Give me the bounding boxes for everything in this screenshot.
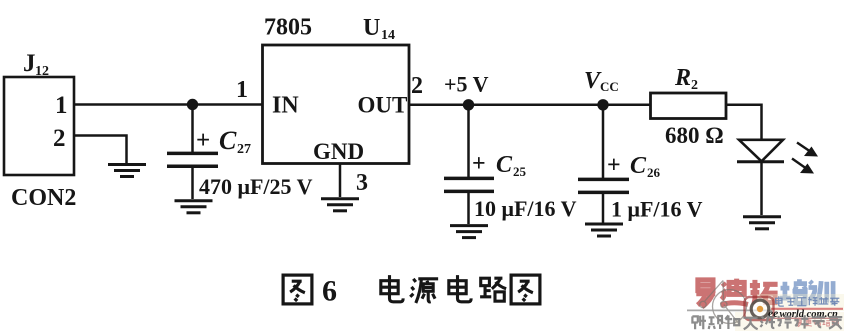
svg-text:CC: CC [600,79,619,94]
svg-text:27: 27 [237,142,251,157]
svg-text:+5 V: +5 V [444,72,489,97]
wire LED to ground [760,162,763,215]
wire C26 to ground [602,193,605,223]
wire junction to C26 [602,105,605,178]
svg-text:7805: 7805 [264,15,312,41]
watermark char xun (blue) [809,281,834,305]
C25 value 10uF/16V [474,196,577,221]
ground at C25 [450,226,488,238]
watermark brand yiditu (red) + peixun (blue) [696,279,833,307]
watermark red divider bar [771,308,843,310]
connector J12 body [4,77,74,175]
caption char dian (electric) 2 [449,275,471,302]
regulator U14 7805 body [263,45,410,164]
C27 value 470uF/25V [199,174,313,199]
wire junction to C25 [467,105,470,177]
LED emission arrow 2 [792,159,814,174]
C25 plus sign [472,151,486,177]
caption char tu (figure) [283,275,312,304]
wire C27 to ground [191,167,194,199]
label C25 [496,152,527,179]
label C26 [630,153,661,180]
svg-text:2: 2 [53,125,66,152]
label J12 [23,50,49,79]
label C27 [219,126,251,157]
label 7805 [264,15,312,41]
svg-text:C: C [219,126,237,155]
node junction dot at C27 [187,99,198,110]
wire U14 GND pin3 to ground [339,164,342,198]
svg-text:1: 1 [236,77,248,103]
watermark char tuo (red) [750,280,778,303]
label CON2 [11,185,76,211]
svg-text:U: U [363,15,380,41]
svg-text:1 μF/16 V: 1 μF/16 V [611,197,703,222]
svg-text:26: 26 [647,165,661,180]
U14 pin 2 number [411,73,423,99]
svg-text:1: 1 [55,92,68,119]
node junction dot at C25 [463,99,474,110]
svg-text:3: 3 [356,170,368,196]
node junction dot at C26 [597,99,608,110]
label U14 [363,15,395,43]
svg-text:470 μF/25 V: 470 μF/25 V [199,174,313,199]
watermark char yi (red) [696,280,715,307]
svg-text:OUT: OUT [358,93,408,118]
caption figure 6 power circuit diagram [283,275,540,308]
watermark molecule line art [700,281,747,325]
ground at J12 pin2 [108,165,146,177]
U14 pin 1 number [236,77,248,103]
ground at C27 [175,201,213,213]
ground at LED [743,217,781,229]
watermark text dianzi gongcheng shijie (blue) [776,296,840,306]
watermark logo eeworld mark [745,297,774,320]
ground at U14 pin3 [321,199,359,211]
svg-text:IN: IN [272,93,299,119]
watermark gray divider line [687,309,772,311]
resistor R2 body [651,93,727,119]
C26 value 1uF/16V [611,197,703,222]
wire junction to C27 top plate [191,105,194,153]
svg-text:2: 2 [691,78,698,93]
caption char lu (road) [480,278,506,301]
C26 plus sign [607,153,621,179]
U14 pin label GND [313,139,364,164]
C27 plus sign [196,127,210,154]
svg-text:J: J [23,50,36,77]
capacitor C25 plates [444,178,494,191]
svg-text:6: 6 [322,275,337,308]
watermark text eeworld.com.cn [766,308,838,320]
svg-text:10 μF/16 V: 10 μF/16 V [474,196,577,221]
svg-text:2: 2 [411,73,423,99]
svg-text:GND: GND [313,139,364,164]
U14 pin label IN [272,93,299,119]
watermark small red brand text row [797,319,839,327]
net label VCC [584,68,619,94]
wire C25 to ground [467,192,470,224]
capacitor C27 plates [167,153,218,166]
caption char tu (figure) 2 [511,275,540,304]
capacitor C26 plates [578,179,629,192]
label R2 [674,65,698,93]
svg-text:C: C [496,152,513,178]
wire R2 to LED [726,105,762,139]
caption char yuan (source) [410,279,438,303]
LED emission arrow 1 [797,143,818,157]
watermark char pei (blue) [780,279,808,303]
wire J12 pin1 to U14 IN [74,103,263,106]
watermark text shepin he tianxian sheji zhuanjia (gray) [692,315,842,329]
caption char dian (electric) 1 [381,275,403,302]
svg-text:+: + [607,153,621,179]
wire U14 OUT rail to R2 [409,104,650,107]
wire J12 pin2 to ground [74,136,127,164]
LED D1 triangle [739,140,783,162]
U14 pin label OUT [358,93,408,118]
J12 pin 2 number [53,125,66,152]
svg-text:680 Ω: 680 Ω [665,123,724,148]
watermark pale yellow band upper [757,294,844,311]
svg-text:R: R [674,65,691,91]
svg-text:14: 14 [381,28,395,43]
svg-text:CON2: CON2 [11,185,76,211]
R2 value 680 ohm [665,123,724,148]
watermark pale yellow band lower [735,312,844,331]
svg-text:+: + [472,151,486,177]
svg-text:+: + [196,127,210,154]
svg-text:C: C [630,153,647,179]
J12 pin 1 number [55,92,68,119]
svg-text:12: 12 [35,64,49,79]
net label +5V [444,72,489,97]
watermark char di (red) [721,279,748,305]
U14 pin 3 number [356,170,368,196]
svg-text:25: 25 [513,164,527,179]
ground at C26 [585,224,623,236]
caption numeral 6 [322,275,337,308]
LED cathode bar [737,160,784,163]
